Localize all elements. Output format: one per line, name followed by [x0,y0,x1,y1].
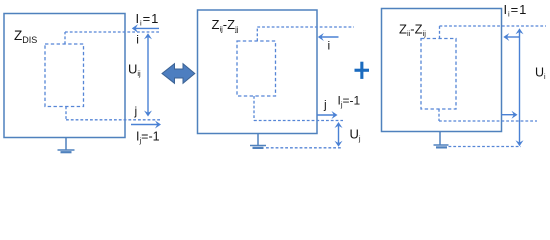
inner dashed block 1 [45,44,84,107]
equivalence double arrow [162,64,195,84]
wire dashed link top 3 [439,26,441,39]
arrow current i left block1 [132,24,159,33]
ground block1 [58,138,75,153]
svg-text:j: j [134,104,138,118]
svg-text:Zii-Zij: Zii-Zij [399,22,426,39]
wire node j line 3 [439,120,537,122]
svg-text:Ii=1: Ii=1 [136,11,160,28]
wire dashed link bottom 3 [438,109,440,121]
inner dashed block 2 [237,41,276,96]
wire dashed link top 1 [64,32,66,44]
ground block2 [250,134,266,148]
wire node i line 3 [440,25,547,27]
svg-text:i: i [328,39,331,53]
arrow current i left block3 [503,33,519,41]
wire node j line 2 [254,120,343,122]
plus sign [355,62,370,79]
wire node i line 2 [257,26,354,28]
wire ground reference dashed block2 [266,147,341,149]
arrow current i left block2 [318,33,339,41]
svg-text:Ii=1: Ii=1 [504,2,528,19]
svg-text:i: i [136,33,139,47]
wire dashed link bottom 1 [65,107,67,120]
svg-text:j: j [323,98,327,112]
wire ground reference dashed block3 [449,146,522,148]
wire node i line 1 [65,31,160,33]
arrow current j right block3 [501,111,518,119]
box Z_DIS outer [4,14,125,138]
wire node j line 1 [66,119,162,121]
ground block3 [434,132,449,148]
arrow U_j double vertical block2 [335,122,343,147]
arrow U_ij double vertical block1 [144,33,152,116]
inner dashed block 3 [421,39,456,110]
wire dashed link bottom 2 [253,96,255,121]
box Z_ii-Z_ij outer (right) [382,9,502,132]
box Z_ij-Z_jj outer (middle) [198,10,318,134]
svg-text:Zij-Zjj: Zij-Zjj [212,17,239,34]
arrow U_i double vertical block3 [516,28,524,146]
arrow current j right block2 [317,111,338,119]
wire dashed link top 2 [256,27,258,41]
arrow current j right block1 [131,121,161,129]
